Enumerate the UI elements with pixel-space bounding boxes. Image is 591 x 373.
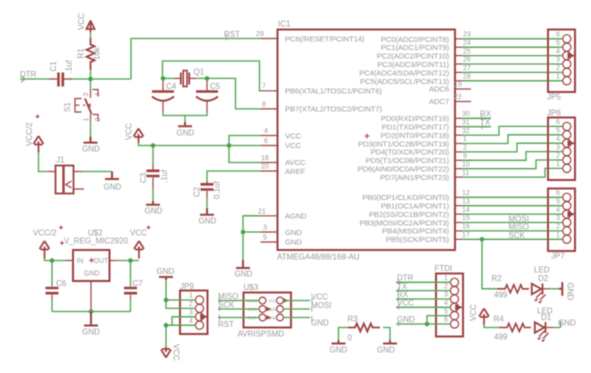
LED D2 <box>532 284 543 295</box>
wire FTDI TX <box>396 290 450 292</box>
node junction dot rail-C3 <box>151 143 156 148</box>
svg-text:2: 2 <box>189 301 193 308</box>
wire VCC to R4 <box>484 325 499 328</box>
svg-text:FTDI: FTDI <box>435 264 453 273</box>
power VCC down arrow below JP9 <box>161 347 171 358</box>
wire RX stub <box>463 117 492 119</box>
wire C2 bottom to gnd <box>206 199 208 208</box>
svg-text:0.1uf: 0.1uf <box>213 180 222 199</box>
capacitor C2 0.1uf <box>201 184 214 189</box>
wire junction stub to switch <box>90 79 92 89</box>
svg-text:2: 2 <box>556 224 560 231</box>
node junction dot xtal1 <box>161 76 166 81</box>
svg-text:GND: GND <box>82 145 100 154</box>
svg-text:V_REG_MIC2920: V_REG_MIC2920 <box>64 237 129 246</box>
capacitor C3 .1uf <box>147 171 160 176</box>
svg-text:3: 3 <box>189 310 193 317</box>
wire AGND net pin21 <box>243 216 261 260</box>
svg-text:GND: GND <box>566 283 575 301</box>
svg-text:GND: GND <box>397 315 415 324</box>
svg-text:4: 4 <box>556 48 560 55</box>
svg-text:5: 5 <box>556 198 560 205</box>
resistor R1 10k <box>90 33 92 39</box>
svg-text:2: 2 <box>463 145 467 152</box>
resistor R3 0 ohm <box>339 328 349 341</box>
pin 18 AVCC <box>261 162 278 164</box>
wire FTDI VCC <box>396 306 450 308</box>
connector J1 <box>47 171 56 173</box>
wire GND stub right <box>284 317 311 319</box>
svg-text:3: 3 <box>556 144 560 151</box>
svg-text:3: 3 <box>263 225 267 232</box>
svg-text:GND: GND <box>311 319 329 328</box>
pin 7 XTAL1 <box>261 90 278 92</box>
svg-text:IN: IN <box>77 258 84 265</box>
svg-text:PC6(/RESET/PCINT14): PC6(/RESET/PCINT14) <box>285 34 365 43</box>
wire PB4 MISO to JP7-2 <box>463 230 563 232</box>
svg-text:0: 0 <box>348 334 353 343</box>
svg-text:C5: C5 <box>210 82 221 91</box>
wire RST stub <box>218 317 259 319</box>
svg-text:5: 5 <box>444 308 448 315</box>
svg-text:SCK: SCK <box>218 301 235 310</box>
svg-text:U$3: U$3 <box>244 283 259 292</box>
wire D2 to gnd <box>544 288 551 290</box>
svg-text:ADC6: ADC6 <box>429 85 449 94</box>
connector JP6 <box>548 118 575 181</box>
svg-text:GND: GND <box>235 270 253 279</box>
svg-text:499: 499 <box>494 291 508 300</box>
svg-text:JP9: JP9 <box>180 282 194 291</box>
svg-text:GND: GND <box>558 319 576 328</box>
pin 2 PD4 <box>455 151 463 153</box>
wire PC3 to JP5-3 <box>463 63 563 65</box>
svg-text:VCC: VCC <box>172 344 181 361</box>
node junction dot xtal2 <box>205 76 210 81</box>
svg-text:GND: GND <box>104 183 122 192</box>
svg-text:VCC: VCC <box>130 229 147 238</box>
svg-text:VCC/2: VCC/2 <box>25 122 34 146</box>
svg-text:PD7(AIN1/PCINT23): PD7(AIN1/PCINT23) <box>380 173 449 182</box>
svg-text:R1: R1 <box>77 48 86 59</box>
svg-text:2: 2 <box>556 153 560 160</box>
node JP9 pin3 arrow marker <box>200 314 208 320</box>
wire JP9 gnd net pins 1,2 <box>166 280 195 308</box>
svg-text:GND: GND <box>377 346 395 355</box>
svg-text:SCK: SCK <box>509 231 526 240</box>
svg-text:GND: GND <box>145 207 163 216</box>
svg-text:C2: C2 <box>193 186 202 197</box>
connector JP5 <box>548 30 575 93</box>
connector JP9 <box>180 291 208 335</box>
wire PB2 to JP7-4 <box>463 213 563 215</box>
pin 13 PB1 <box>455 205 463 207</box>
svg-text:PB6(XTAL1/TOSC1/PCINT6): PB6(XTAL1/TOSC1/PCINT6) <box>285 87 382 96</box>
svg-text:9: 9 <box>463 153 467 160</box>
svg-text:JP5: JP5 <box>547 93 561 102</box>
pin 26 PC3 <box>455 63 463 65</box>
svg-text:OUT: OUT <box>94 258 110 265</box>
capacitor C1 .1uf <box>49 78 72 80</box>
svg-text:JP7: JP7 <box>551 252 565 261</box>
pin 23 PC0 <box>455 38 463 40</box>
svg-text:3: 3 <box>556 215 560 222</box>
wire PB1 to JP7-5 <box>463 205 563 207</box>
wire DTR to junction and onward <box>69 78 131 80</box>
svg-text:3: 3 <box>444 292 448 299</box>
svg-text:.1uf: .1uf <box>160 169 169 183</box>
svg-text:4: 4 <box>556 207 560 214</box>
svg-text:15: 15 <box>462 215 470 222</box>
connector FTDI <box>436 274 463 337</box>
svg-text:GND: GND <box>285 238 302 247</box>
pin 24 PC1 <box>455 46 463 48</box>
svg-text:4: 4 <box>444 300 448 307</box>
wire MOSI stub right <box>284 308 311 310</box>
wire AGND branch pin3 <box>243 231 261 233</box>
pin 8 XTAL2 <box>261 108 278 110</box>
wire XTAL2 net <box>196 78 261 109</box>
wire PD2 to JP6-6 <box>463 126 563 135</box>
wire D1 to gnd label <box>547 327 554 329</box>
pin 31 PD1 TXD <box>455 126 463 128</box>
svg-text:16: 16 <box>462 224 470 231</box>
svg-text:GND: GND <box>157 267 175 276</box>
svg-text:22: 22 <box>454 94 462 101</box>
svg-text:3: 3 <box>556 57 560 64</box>
node junction dot reg-in / C6 <box>50 258 55 263</box>
node JP6 pin4 arrow marker <box>568 140 576 146</box>
svg-text:VCC: VCC <box>125 123 134 140</box>
svg-text:D2: D2 <box>538 274 549 283</box>
pin 5 GND unconnected stub <box>261 241 278 243</box>
pin 27 PC4 <box>455 71 463 73</box>
capacitor C5 <box>206 81 208 92</box>
wire DTR left segment <box>20 78 50 80</box>
svg-text:4: 4 <box>189 318 193 325</box>
node FTDI pin4 arrow marker <box>455 304 463 310</box>
ground right of D2 rotated <box>559 282 562 296</box>
reg gnd pin <box>90 281 92 312</box>
node junction dot reg gnd <box>89 309 94 314</box>
svg-text:2: 2 <box>444 283 448 290</box>
wire PD5 to JP6-3 <box>463 152 563 161</box>
svg-text:VCC/2: VCC/2 <box>33 229 57 238</box>
ground below Q1 caps <box>178 122 192 126</box>
pin 11 PD7 <box>455 176 463 178</box>
pin 16 PB4 MISO <box>455 230 463 232</box>
svg-text:11: 11 <box>462 170 469 177</box>
svg-text:AGND: AGND <box>285 212 307 221</box>
svg-text:30: 30 <box>462 111 470 118</box>
pin 21 AGND <box>261 215 278 217</box>
svg-text:ADC7: ADC7 <box>429 97 449 106</box>
svg-text:4: 4 <box>264 128 268 135</box>
IC1 origin cross <box>365 134 370 139</box>
svg-text:C3: C3 <box>139 172 148 183</box>
svg-text:1: 1 <box>463 136 467 143</box>
pin 17 PB5 SCK <box>455 238 463 240</box>
svg-text:VCC: VCC <box>397 299 414 308</box>
wire TX stub <box>463 126 492 128</box>
capacitor C7 <box>130 261 132 287</box>
svg-text:1: 1 <box>189 293 193 300</box>
svg-text:VCC: VCC <box>285 131 301 140</box>
svg-text:23: 23 <box>463 32 471 39</box>
svg-text:18: 18 <box>261 155 269 162</box>
svg-text:2: 2 <box>556 65 560 72</box>
svg-text:20: 20 <box>261 164 269 171</box>
connector JP7 <box>548 189 575 252</box>
svg-text:17: 17 <box>462 232 470 239</box>
node junction dot agnd <box>241 230 246 235</box>
svg-text:JP6: JP6 <box>547 109 561 118</box>
svg-text:R2: R2 <box>492 274 503 283</box>
wire PC5 to JP5-1 <box>463 80 563 82</box>
svg-text:VCC: VCC <box>285 141 301 150</box>
ground right of R3 <box>383 340 397 344</box>
svg-text:1: 1 <box>444 275 448 282</box>
svg-text:27: 27 <box>463 65 471 72</box>
wire PB3 MOSI to JP7-3 <box>463 222 563 224</box>
svg-text:1: 1 <box>556 232 560 239</box>
wire PC0 to JP5-6 <box>463 38 563 40</box>
svg-text:VCC: VCC <box>77 13 86 30</box>
svg-text:6: 6 <box>444 317 448 324</box>
wire C3 bottom to gnd <box>152 189 154 201</box>
svg-text:MOSI: MOSI <box>311 301 331 310</box>
pin 20 AREF <box>261 170 278 172</box>
svg-text:24: 24 <box>463 40 471 47</box>
pin 1 PD3 <box>455 143 463 145</box>
wire PD6 to JP6-2 <box>463 160 563 169</box>
wire C3 top <box>152 146 154 164</box>
pin 30 PD0 RXD <box>455 117 463 119</box>
pin 3 GND <box>261 231 278 233</box>
svg-text:AREF: AREF <box>285 167 305 176</box>
wire xtal gnd drop <box>184 116 186 123</box>
svg-text:499: 499 <box>494 333 508 342</box>
svg-text:6: 6 <box>556 119 560 126</box>
wire SCK drop to R2 <box>482 239 497 288</box>
svg-text:DTR: DTR <box>20 70 37 79</box>
svg-text:GND: GND <box>177 129 195 138</box>
svg-text:10k: 10k <box>93 46 102 60</box>
wire MISO stub <box>218 300 259 302</box>
power VCC symbol mid rail <box>134 129 144 144</box>
voltage regulator U$2 MIC2920 <box>73 250 110 281</box>
svg-text:2: 2 <box>95 118 102 122</box>
wire J1 out to gnd <box>74 171 83 173</box>
pin 9 PD5 <box>455 159 463 161</box>
node DTR port arrow <box>21 76 25 82</box>
wire PB5 SCK to JP7-1 <box>463 238 563 240</box>
wire SCK stub <box>218 308 259 310</box>
svg-text:C7: C7 <box>133 279 144 288</box>
ground below C2 <box>200 208 214 215</box>
svg-text:R4: R4 <box>494 315 505 324</box>
svg-text:10: 10 <box>462 161 470 168</box>
crystal Q1 <box>174 77 196 79</box>
svg-text:21: 21 <box>258 209 266 216</box>
node junction dot jp9-1 <box>164 298 169 303</box>
svg-text:29: 29 <box>256 31 264 38</box>
svg-text:5: 5 <box>556 128 560 135</box>
wire pin4 jog <box>229 136 261 146</box>
svg-text:ATMEGA48/88/168-AU: ATMEGA48/88/168-AU <box>277 253 360 262</box>
ground below regulator <box>84 312 98 326</box>
wire JP9 vcc net pins 3,4 <box>166 317 195 347</box>
svg-text:7: 7 <box>262 83 266 90</box>
wire FTDI RX <box>396 298 450 300</box>
pin 14 PB2 <box>455 213 463 215</box>
wire RST net: DTR cap junction up to pin29 <box>131 39 261 80</box>
svg-text:AVRISPSMD: AVRISPSMD <box>238 330 285 339</box>
node junction dot DTR/RST <box>88 77 93 82</box>
pin 25 PC2 <box>455 55 463 57</box>
ground right of J1 <box>105 172 119 180</box>
svg-text:31: 31 <box>462 119 470 126</box>
svg-text:IC1: IC1 <box>278 20 291 29</box>
resistor R4 499 <box>499 324 531 332</box>
pin 28 PC5 <box>455 80 463 82</box>
svg-text:28: 28 <box>463 74 471 81</box>
svg-text:25: 25 <box>463 48 471 55</box>
svg-text:D1: D1 <box>541 313 552 322</box>
node junction dot jp9-4 <box>164 323 169 328</box>
svg-text:GND: GND <box>82 328 100 337</box>
node junction dot rail-pin4 <box>227 143 232 148</box>
svg-text:GND: GND <box>330 346 348 355</box>
wire FTDI DTR <box>396 281 450 283</box>
wire PC2 to JP5-4 <box>463 55 563 57</box>
svg-text:5: 5 <box>556 40 560 47</box>
label origin ticks <box>481 116 483 121</box>
ground below C3 <box>146 201 160 205</box>
svg-text:3: 3 <box>83 93 90 97</box>
svg-text:Q1: Q1 <box>194 68 205 77</box>
svg-text:26: 26 <box>463 57 471 64</box>
svg-text:J1: J1 <box>56 156 65 165</box>
svg-text:VCC: VCC <box>268 299 278 304</box>
pin 32 PD2 <box>455 134 463 136</box>
microcontroller IC1 <box>256 20 471 262</box>
node JP7 pin4 arrow marker <box>568 211 576 217</box>
wire AREF C2 net <box>207 171 261 181</box>
power VCC/2 symbol at J1 <box>34 136 44 153</box>
wire pin18 drop <box>229 146 261 163</box>
svg-text:PB5(SCK/PCINT5): PB5(SCK/PCINT5) <box>386 235 450 244</box>
pin 10 PD6 <box>455 168 463 170</box>
wire PD3 to JP6-5 <box>463 135 563 144</box>
wire PB0 to JP7-6 <box>463 196 563 198</box>
svg-text:13: 13 <box>462 198 470 205</box>
LED D1 <box>535 322 546 333</box>
svg-text:RST: RST <box>218 320 234 329</box>
switch S1 <box>91 89 99 99</box>
svg-text:6: 6 <box>556 190 560 197</box>
svg-text:GND: GND <box>199 217 217 226</box>
header U$3 AVRISPSMD <box>244 293 292 328</box>
svg-text:VCC: VCC <box>469 304 478 321</box>
wire switch bottom to gnd <box>90 122 92 137</box>
capacitor C6 <box>51 261 53 287</box>
pin 22 ADC7 stub <box>455 101 471 103</box>
ground left of R3 <box>332 340 346 344</box>
IC1 ATMEGA48/88/168-AU body <box>278 30 456 251</box>
pin 4 VCC <box>261 135 278 137</box>
wire PD4 to JP6-4 <box>463 143 563 152</box>
svg-text:5: 5 <box>263 235 267 242</box>
pin 29 PC6/RESET <box>261 38 278 40</box>
svg-text:19: 19 <box>454 82 462 89</box>
svg-text:32: 32 <box>462 128 470 135</box>
resistor R2 499 <box>497 285 529 293</box>
wire FTDI GND to pins 5+6 <box>396 316 450 324</box>
svg-text:4: 4 <box>95 93 102 97</box>
svg-text:1: 1 <box>83 118 90 122</box>
node junction dot reg-out / C7 <box>128 258 133 263</box>
wire gnd bus under regulator <box>52 311 131 313</box>
ground below S1 <box>84 137 98 143</box>
svg-text:6: 6 <box>556 32 560 39</box>
pin 12 PB0 <box>455 196 463 198</box>
capacitor C4 <box>162 81 164 92</box>
pin 19 ADC6 stub <box>455 88 471 90</box>
pin 15 PB3 MOSI <box>455 222 463 224</box>
wire VCC stub right <box>284 300 311 302</box>
wire PD7 to JP6-1 <box>463 168 563 177</box>
svg-text:4: 4 <box>556 136 560 143</box>
svg-text:GND: GND <box>84 271 100 278</box>
power VCC symbol above R1 <box>86 21 95 33</box>
wire XTAL1 net <box>163 61 261 91</box>
ground AGND <box>236 260 250 268</box>
svg-text:1: 1 <box>556 161 560 168</box>
svg-text:C1: C1 <box>49 61 58 72</box>
wire reg input <box>45 259 66 261</box>
wire Q1 left <box>163 77 174 79</box>
pin 6 VCC <box>261 145 278 147</box>
svg-text:.1uf: .1uf <box>65 59 74 73</box>
svg-text:8: 8 <box>262 101 266 108</box>
wire VCC/2 to J1 <box>39 153 48 172</box>
svg-text:C6: C6 <box>56 279 67 288</box>
node junction dot sck <box>480 237 485 242</box>
svg-text:1: 1 <box>556 74 560 81</box>
ground above JP9 <box>159 277 173 280</box>
wire reg output <box>110 260 118 262</box>
wire VCC rail to pin6 <box>139 143 261 146</box>
wire PC1 to JP5-5 <box>463 46 563 48</box>
svg-text:R3: R3 <box>348 315 359 324</box>
wire PC4 to JP5-2 <box>463 71 563 73</box>
svg-text:PB7(XTAL2/TOSC2/PCINT7): PB7(XTAL2/TOSC2/PCINT7) <box>285 105 382 114</box>
node junction dot ftdi gnd <box>425 322 430 327</box>
svg-text:6: 6 <box>264 138 268 145</box>
svg-text:C4: C4 <box>166 82 177 91</box>
wire C4 C5 bottoms join <box>163 112 207 116</box>
node JP5 pin4 arrow marker <box>568 53 576 59</box>
svg-text:14: 14 <box>462 207 470 214</box>
svg-text:S1: S1 <box>63 102 72 112</box>
svg-text:GND: GND <box>285 228 302 237</box>
svg-text:12: 12 <box>462 190 470 197</box>
